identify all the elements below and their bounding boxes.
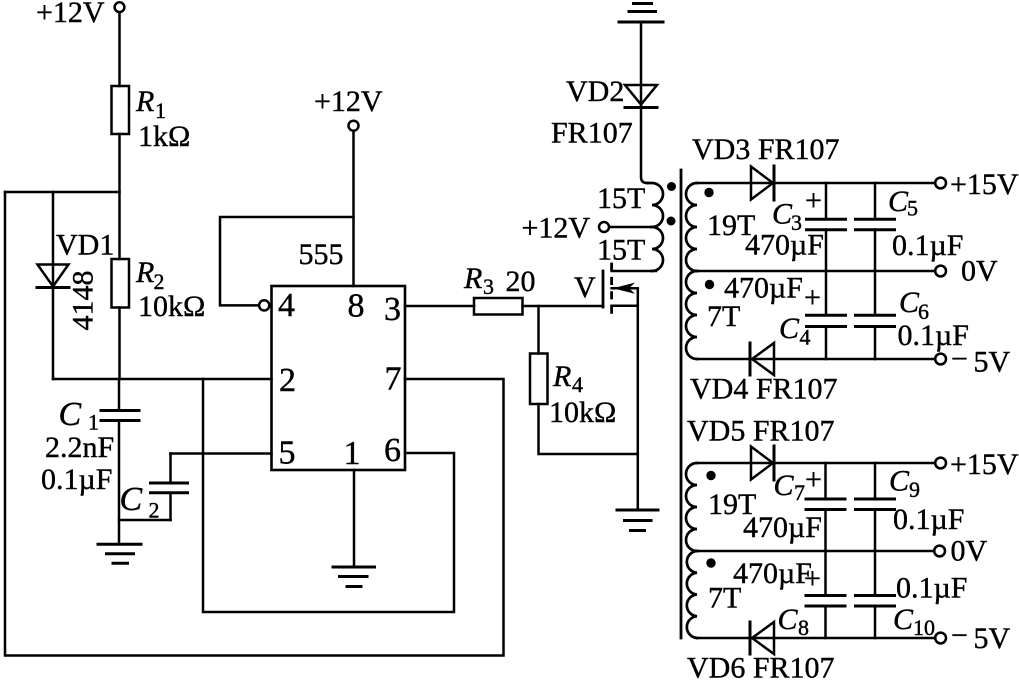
diode VD2 xyxy=(625,85,657,105)
wire pin5 xyxy=(171,452,272,455)
svg-text:8: 8 xyxy=(798,615,809,640)
inductor secondary 7T lower group xyxy=(687,551,697,638)
wire VD1 anode xyxy=(52,192,55,288)
ground top (VD2 anode) xyxy=(634,2,652,5)
capacitor C9 xyxy=(874,463,877,499)
svg-text:+: + xyxy=(805,184,822,217)
transistor V MOSFET xyxy=(602,271,605,307)
wire C2 bottom to C1 bottom xyxy=(119,519,171,522)
ground under C1 xyxy=(98,543,141,546)
diode VD4 xyxy=(749,343,752,375)
svg-text:0.1µF: 0.1µF xyxy=(892,229,963,262)
op-amp U1 555 timer box xyxy=(272,286,406,470)
transformer core xyxy=(680,170,683,638)
svg-text:6: 6 xyxy=(384,432,401,469)
svg-text:15T: 15T xyxy=(597,234,645,267)
wire MOSFET source down xyxy=(637,288,640,510)
resistor R4 with leads xyxy=(537,306,540,354)
wire secondary top to VD3 xyxy=(697,182,935,185)
capacitor C6 xyxy=(874,271,877,315)
svg-text:C: C xyxy=(889,465,910,498)
svg-text:VD4 FR107: VD4 FR107 xyxy=(690,373,838,406)
wire node A horizontal (R1-R2 junction to left rail) xyxy=(5,191,120,194)
node +12V terminal top-left xyxy=(115,2,125,12)
wire pin1 xyxy=(353,470,356,566)
wire VD2 to primary top xyxy=(641,108,647,184)
svg-text:470µF: 470µF xyxy=(745,229,824,262)
svg-text:1kΩ: 1kΩ xyxy=(138,120,190,153)
svg-text:2.2nF: 2.2nF xyxy=(45,431,114,464)
svg-text:5V: 5V xyxy=(974,346,1011,379)
dot primary upper xyxy=(667,182,676,191)
svg-text:10kΩ: 10kΩ xyxy=(138,290,205,323)
svg-text:C: C xyxy=(772,198,793,231)
svg-text:+15V: +15V xyxy=(950,448,1019,481)
inductor primary 15T upper xyxy=(647,183,663,227)
wire pin2-pin6 link xyxy=(203,379,454,612)
svg-text:7: 7 xyxy=(794,480,805,505)
wire +12V to R1 xyxy=(118,12,121,86)
inductor secondary 19T lower group xyxy=(686,463,697,551)
wire pin7 to R1R2 junction big loop xyxy=(5,192,504,656)
node +12V terminal 555 xyxy=(349,121,359,131)
capacitor C1 xyxy=(118,379,121,410)
svg-text:4148: 4148 xyxy=(66,271,99,331)
node -5V terminal upper xyxy=(935,354,946,365)
svg-text:C: C xyxy=(899,286,920,319)
svg-text:3: 3 xyxy=(483,274,494,299)
capacitor C8 xyxy=(824,551,827,595)
node +12V tap terminal xyxy=(599,222,609,232)
svg-text:8: 8 xyxy=(348,288,365,325)
node +15V terminal upper xyxy=(935,178,946,189)
svg-text:0.1µF: 0.1µF xyxy=(41,463,112,496)
node 0V terminal lower xyxy=(934,546,945,557)
svg-text:4: 4 xyxy=(800,325,811,350)
pin 4 circle xyxy=(259,300,269,310)
svg-text:V: V xyxy=(574,271,596,304)
wire R2 bottom xyxy=(118,308,121,380)
wire R3 to gate xyxy=(523,305,604,308)
svg-text:9: 9 xyxy=(909,477,920,502)
capacitor C2 xyxy=(169,454,172,483)
svg-text:3: 3 xyxy=(384,291,401,328)
dot secondary 7T lower xyxy=(706,558,715,567)
svg-text:+12V: +12V xyxy=(314,85,383,118)
resistor R2 xyxy=(112,259,130,308)
svg-text:+: + xyxy=(805,463,822,496)
wire +12V tap xyxy=(609,226,652,229)
inductor secondary 7T upper group xyxy=(686,271,697,359)
svg-text:0V: 0V xyxy=(951,535,988,568)
dot secondary 19T upper xyxy=(704,188,713,197)
svg-text:VD2: VD2 xyxy=(566,75,624,108)
svg-text:0.1µF: 0.1µF xyxy=(896,572,967,605)
svg-text:R: R xyxy=(135,256,154,289)
dot secondary 7T upper xyxy=(705,280,714,289)
svg-text:−: − xyxy=(951,619,968,652)
wire pin8 supply xyxy=(352,131,355,286)
wire secondary bottom to VD6 xyxy=(697,637,935,640)
svg-text:R: R xyxy=(552,360,571,393)
node -5V terminal lower xyxy=(935,633,946,644)
wire 0V upper xyxy=(697,270,935,273)
capacitor C4 xyxy=(825,271,828,315)
svg-text:10kΩ: 10kΩ xyxy=(549,396,616,429)
capacitor C7 xyxy=(824,463,827,499)
svg-text:0.1µF: 0.1µF xyxy=(893,503,964,536)
svg-text:VD6 FR107: VD6 FR107 xyxy=(687,652,835,683)
svg-text:2: 2 xyxy=(279,362,296,399)
wire secondary bottom to VD4 xyxy=(697,358,935,361)
svg-text:20: 20 xyxy=(506,265,536,298)
wire VD1 cathode xyxy=(52,288,55,380)
wire 0V lower xyxy=(697,550,934,553)
svg-text:5: 5 xyxy=(907,196,918,221)
capacitor C3 xyxy=(825,183,828,219)
svg-text:VD1: VD1 xyxy=(56,229,114,262)
svg-text:7T: 7T xyxy=(707,300,740,333)
svg-text:4: 4 xyxy=(278,287,295,324)
svg-text:+12V: +12V xyxy=(36,0,105,29)
svg-text:+15V: +15V xyxy=(950,168,1019,201)
ground under MOSFET source xyxy=(617,509,658,512)
svg-text:R: R xyxy=(135,85,154,118)
svg-text:470µF: 470µF xyxy=(733,557,812,590)
svg-text:C: C xyxy=(774,469,795,502)
svg-text:5: 5 xyxy=(279,435,296,472)
wire pin3 to R3 xyxy=(405,305,474,308)
diode VD3 xyxy=(751,167,773,200)
inductor secondary 19T upper group xyxy=(686,183,697,271)
svg-text:C: C xyxy=(893,603,914,636)
diode VD5 xyxy=(751,447,773,480)
wire pin2 net horizontal xyxy=(53,378,272,381)
capacitor C5 xyxy=(874,183,877,219)
svg-text:10: 10 xyxy=(913,615,935,640)
resistor R1 xyxy=(112,86,130,134)
inductor primary 15T lower xyxy=(652,227,663,271)
svg-text:C: C xyxy=(120,481,143,518)
wire R1 to R2 xyxy=(118,134,121,259)
svg-text:C: C xyxy=(59,396,82,433)
svg-text:R: R xyxy=(463,262,482,295)
svg-text:VD3 FR107: VD3 FR107 xyxy=(692,133,840,166)
svg-text:5V: 5V xyxy=(974,622,1011,655)
svg-text:C: C xyxy=(888,185,909,218)
svg-text:+: + xyxy=(804,562,821,595)
svg-text:1: 1 xyxy=(344,435,361,472)
capacitor C10 xyxy=(874,551,877,595)
svg-text:7: 7 xyxy=(385,361,402,398)
svg-text:C: C xyxy=(779,312,800,345)
wire ground to VD2 xyxy=(640,22,643,108)
svg-text:2: 2 xyxy=(149,498,160,523)
ground under 555 pin1 xyxy=(333,566,375,569)
node 0V terminal upper xyxy=(935,266,946,277)
resistor R3 xyxy=(474,298,523,315)
svg-text:+: + xyxy=(804,281,821,314)
diode VD6 xyxy=(749,622,752,654)
svg-text:4: 4 xyxy=(572,372,583,397)
svg-text:FR107: FR107 xyxy=(551,117,633,150)
svg-text:470µF: 470µF xyxy=(743,511,822,544)
dot secondary 19T lower xyxy=(706,471,715,480)
dot primary lower xyxy=(667,217,676,226)
svg-text:C: C xyxy=(778,603,799,636)
wire pin4 to pin8 xyxy=(220,217,354,305)
svg-text:+12V: +12V xyxy=(522,212,591,245)
node +15V terminal lower xyxy=(935,458,946,469)
svg-text:VD5 FR107: VD5 FR107 xyxy=(687,415,835,448)
svg-text:470µF: 470µF xyxy=(724,272,803,305)
diode VD1 xyxy=(38,265,69,287)
svg-text:15T: 15T xyxy=(597,182,645,215)
svg-text:−: − xyxy=(951,343,968,376)
wire secondary top to VD5 xyxy=(697,462,935,465)
svg-text:0V: 0V xyxy=(961,255,998,288)
svg-text:555: 555 xyxy=(299,238,344,271)
